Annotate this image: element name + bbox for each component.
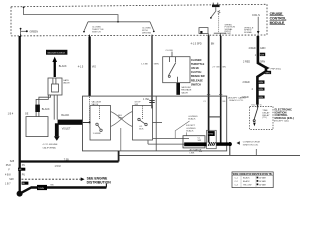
svg-text:MODULE: MODULE [270, 21, 285, 25]
svg-text:CALIFORNIA: CALIFORNIA [43, 146, 57, 149]
svg-text:CONTROL: CONTROL [270, 16, 287, 20]
svg-text:BLACK: BLACK [243, 180, 250, 183]
svg-text:1 YEL: 1 YEL [143, 98, 150, 101]
svg-text:PU: PU [22, 174, 26, 177]
svg-text:BLACK: BLACK [42, 108, 50, 111]
svg-text:35-8: 35-8 [6, 164, 11, 167]
svg-text:14 WAY: 14 WAY [259, 183, 267, 186]
svg-text:DISTRIBUTION: DISTRIBUTION [87, 181, 112, 185]
svg-text:CLOSD: CLOSD [166, 50, 174, 52]
svg-text:BLACK: BLACK [243, 177, 250, 180]
svg-text:RELEASE: RELEASE [191, 79, 203, 82]
svg-text:14 WAY: 14 WAY [259, 180, 267, 183]
svg-text:PU: PU [22, 164, 26, 167]
svg-text:4-1.5: 4-1.5 [78, 65, 84, 68]
svg-text:CRUISE: CRUISE [270, 12, 284, 16]
svg-text:S RD: S RD [208, 134, 213, 136]
svg-text:G: G [260, 104, 262, 106]
svg-text:2 RED: 2 RED [243, 81, 250, 84]
svg-text:RELEASE: RELEASE [181, 89, 192, 92]
svg-text:7.5B: 7.5B [64, 158, 69, 161]
svg-text:4 B 8: 4 B 8 [5, 174, 11, 177]
svg-text:GRN: GRN [265, 72, 270, 74]
svg-text:GRN: GRN [118, 118, 123, 120]
svg-text:4 RED: 4 RED [249, 47, 256, 50]
svg-text:7 RUN: 7 RUN [38, 188, 45, 190]
svg-text:PNP (EZL): PNP (EZL) [271, 69, 282, 71]
svg-text:4-SPEED: 4-SPEED [188, 116, 198, 118]
svg-text:(EXCEPT CAL): (EXCEPT CAL) [274, 120, 289, 123]
svg-text:GE: GE [25, 112, 29, 115]
svg-text:VACUUM SOURCE: VACUUM SOURCE [47, 52, 65, 55]
svg-text:GATE: GATE [63, 79, 69, 82]
svg-text:(LOW): (LOW) [225, 33, 232, 35]
svg-text:GRN: GRN [260, 60, 266, 63]
svg-text:4 CYL ENGINE: 4 CYL ENGINE [43, 144, 59, 146]
svg-text:VALVE: VALVE [191, 67, 199, 70]
svg-text:1 GRN8: 1 GRN8 [93, 133, 102, 135]
svg-text:SWITCH: SWITCH [191, 83, 201, 86]
svg-text:BLK: BLK [118, 115, 123, 117]
svg-text:VALVE: VALVE [181, 91, 188, 94]
svg-text:BLACK: BLACK [186, 130, 194, 133]
svg-text:1.5 M: 1.5 M [55, 165, 61, 168]
svg-text:GRN: GRN [260, 47, 266, 50]
svg-text:BLK: BLK [139, 128, 144, 130]
svg-text:VIO: VIO [92, 65, 96, 68]
svg-text:BLACK: BLACK [188, 118, 196, 121]
svg-text:MODULE (EZL): MODULE (EZL) [275, 116, 294, 120]
svg-text:BLACK 4 CYL: BLACK 4 CYL [230, 99, 245, 102]
svg-text:BLACK: BLACK [59, 65, 67, 68]
svg-text:14 WAY: 14 WAY [259, 177, 267, 180]
svg-text:BN: BN [211, 43, 215, 46]
svg-text:DRIVING: DRIVING [142, 32, 151, 34]
svg-text:YELLOW: YELLOW [243, 184, 251, 186]
svg-text:GRN: GRN [259, 97, 264, 99]
svg-text:VACUUM: VACUUM [181, 86, 190, 89]
svg-text:COIL N: COIL N [252, 14, 260, 17]
svg-text:SIGNAL: SIGNAL [244, 31, 253, 34]
svg-text:BLACK: BLACK [61, 114, 69, 117]
svg-text:2 RED: 2 RED [243, 60, 250, 63]
svg-text:S28: S28 [10, 160, 15, 163]
svg-text:VIOLET: VIOLET [62, 127, 71, 130]
svg-text:BRAKE SW: BRAKE SW [191, 75, 205, 78]
svg-text:GRN: GRN [154, 63, 159, 65]
svg-text:1.5 BK: 1.5 BK [141, 63, 148, 65]
svg-text:CLUTCH: CLUTCH [191, 71, 201, 74]
svg-text:EXCEPT: EXCEPT [186, 125, 195, 127]
svg-text:2 T GN: 2 T GN [212, 67, 219, 69]
svg-text:1 B 4: 1 B 4 [8, 112, 14, 115]
svg-text:GREEN: GREEN [30, 30, 39, 33]
svg-text:4-1.5 SPD: 4-1.5 SPD [191, 43, 202, 46]
svg-text:LINK: LINK [190, 152, 195, 154]
svg-text:VALVE: VALVE [92, 103, 99, 106]
svg-text:CLOSED: CLOSED [191, 59, 202, 62]
svg-text:(TD): (TD) [262, 117, 267, 119]
svg-text:VALVE: VALVE [63, 82, 70, 85]
svg-text:S28: S28 [9, 178, 14, 181]
svg-text:GRN: GRN [259, 82, 264, 84]
svg-text:IGNITION COIL: IGNITION COIL [243, 144, 259, 146]
svg-text:CONNECTOR AT: CONNECTOR AT [243, 140, 261, 143]
svg-text:BN: BN [223, 67, 226, 69]
svg-text:GRN: GRN [259, 89, 264, 91]
svg-text:THROTTLE: THROTTLE [191, 63, 205, 66]
svg-text:SWITCH: SWITCH [92, 32, 101, 34]
svg-text:4-SPEED: 4-SPEED [186, 128, 196, 130]
svg-text:1 B 7: 1 B 7 [5, 183, 11, 186]
